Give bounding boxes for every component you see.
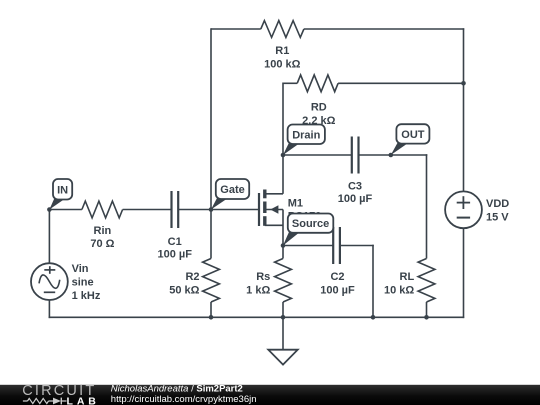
CircuitLab logo diode — [53, 398, 61, 405]
wire source row: C2 to right corner — [340, 245, 374, 247]
node RL bottom junction — [424, 315, 429, 320]
svg-text:100 µF: 100 µF — [338, 193, 373, 205]
node gate junction — [209, 207, 214, 212]
wire RD left lead / drain branch corner — [282, 83, 284, 156]
wire top rail left of R1 — [211, 28, 261, 30]
svg-text:sine: sine — [72, 277, 94, 289]
capacitor C1 — [170, 191, 172, 228]
node IN flag — [49, 198, 66, 210]
resistor R1 — [261, 21, 304, 38]
voltage source VDD — [445, 191, 509, 228]
svg-text:http://circuitlab.com/crvpyktm: http://circuitlab.com/crvpyktme36jn — [111, 394, 257, 405]
svg-text:Drain: Drain — [292, 129, 320, 141]
wire R2 top lead — [210, 210, 212, 259]
resistor Rs — [275, 259, 292, 303]
node Gate flag — [211, 198, 229, 210]
svg-text:C3: C3 — [348, 180, 362, 192]
svg-text:C2: C2 — [330, 271, 344, 283]
svg-text:Rs: Rs — [256, 271, 270, 283]
svg-text:OUT: OUT — [401, 129, 425, 141]
wire R2 bottom lead — [210, 302, 212, 317]
wire C2 right corner down to bottom rail — [372, 245, 374, 318]
svg-text:1 kΩ: 1 kΩ — [246, 284, 270, 296]
node drain junction — [281, 153, 286, 158]
node Rs/ground junction — [281, 315, 286, 320]
wire top rail right of R1 — [304, 28, 464, 30]
wire left vertical (top rail to gate row) — [210, 28, 212, 209]
svg-text:50 kΩ: 50 kΩ — [169, 284, 199, 296]
resistor Rin — [82, 201, 123, 218]
wire VDD bottom lead — [463, 228, 465, 318]
svg-text:M1: M1 — [288, 197, 303, 209]
wire input row: IN node to Rin — [49, 209, 82, 211]
ground — [268, 350, 297, 365]
svg-text:IN: IN — [57, 184, 68, 196]
svg-text:1 kHz: 1 kHz — [72, 290, 101, 302]
svg-text:10 kΩ: 10 kΩ — [384, 284, 414, 296]
node OUT flag — [391, 142, 410, 155]
wire VDD top lead — [463, 28, 465, 191]
node OUT junction — [389, 153, 394, 158]
wire input row: Rin to C1 — [123, 209, 172, 211]
CircuitLab logo resistor squiggle — [28, 398, 49, 403]
wire gate junction to M1 gate — [211, 209, 259, 211]
svg-text:R1: R1 — [275, 45, 289, 57]
resistor RL — [418, 259, 435, 303]
svg-text:RL: RL — [400, 271, 415, 283]
resistor R2 — [203, 259, 220, 303]
node C2 bottom junction — [371, 315, 376, 320]
voltage source Vin (sine) — [31, 263, 101, 302]
wire RL top lead — [426, 154, 428, 258]
node Drain flag — [283, 143, 301, 156]
wire RD right lead to VDD rail — [338, 82, 463, 84]
wire IN node down to Vin — [48, 210, 50, 264]
wire Rs bottom lead — [282, 302, 284, 317]
wire ground stem — [282, 317, 284, 349]
svg-text:15 V: 15 V — [486, 212, 509, 224]
node RD to VDD rail junction — [461, 81, 466, 86]
wire drain row: C3 to OUT node — [359, 154, 391, 156]
wire Rs top lead — [282, 246, 284, 259]
capacitor C2 — [332, 227, 334, 264]
svg-text:100 kΩ: 100 kΩ — [264, 58, 301, 70]
capacitor C3 — [351, 137, 353, 174]
svg-text:C1: C1 — [168, 236, 182, 248]
wire input row: C1 to gate junction — [178, 209, 211, 211]
svg-text:RD: RD — [311, 102, 327, 114]
svg-text:100 µF: 100 µF — [157, 249, 192, 261]
wire RL bottom lead — [426, 302, 428, 317]
svg-text:LAB: LAB — [67, 395, 100, 405]
wire source row: source node to C2 — [283, 245, 333, 247]
svg-text:Gate: Gate — [220, 184, 244, 196]
svg-text:70 Ω: 70 Ω — [90, 238, 114, 250]
node source junction — [281, 243, 286, 248]
svg-text:100 µF: 100 µF — [320, 284, 355, 296]
wire drain row: drain node to C3 — [283, 154, 352, 156]
resistor RD — [297, 75, 338, 92]
wire drain node down to M1 drain — [282, 155, 284, 194]
transistor M1 (NMOS) — [259, 190, 321, 246]
node Source flag — [283, 231, 301, 245]
svg-text:R2: R2 — [185, 271, 199, 283]
svg-text:VDD: VDD — [486, 198, 509, 210]
node IN junction — [47, 207, 52, 212]
wire OUT node to RL corner — [391, 154, 428, 156]
wire Vin bottom to bottom rail — [48, 300, 50, 319]
svg-text:Rin: Rin — [94, 225, 112, 237]
svg-text:Vin: Vin — [72, 263, 89, 275]
node R2 bottom junction — [209, 315, 214, 320]
svg-text:Source: Source — [292, 218, 329, 230]
wire bottom rail — [49, 316, 465, 318]
